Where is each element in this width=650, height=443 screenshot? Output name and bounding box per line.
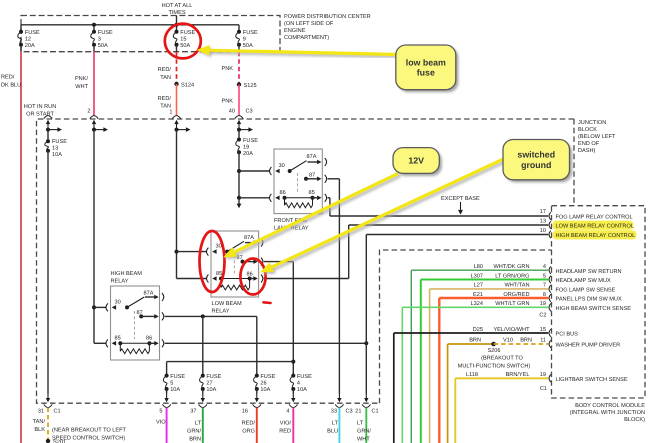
fuse F5 (10A) [163,374,185,393]
BCM terminal 19: HIGH BEAM SWITCH SENSE [549,304,551,312]
fuse F12 (20A) [18,30,40,49]
terminal 21 C1 [365,393,367,399]
relay: LOW BEAM RELAY (box) [211,231,259,297]
wire BRN (washer pump, solid to S206) [448,343,494,345]
terminal 31 C1 [47,393,49,399]
junction block enclosure (dashed) [37,119,575,403]
svg-text:switched: switched [517,150,555,160]
svg-text:RED: RED [279,429,291,435]
svg-text:RELAY: RELAY [212,309,230,315]
wire C from terminal 1 down [175,128,179,132]
svg-text:HIGH BEAM RELAY CONTROL: HIGH BEAM RELAY CONTROL [556,233,636,239]
svg-text:BRN/YEL: BRN/YEL [506,371,530,378]
BCM terminal 19 C1: LIGHTBAR SWITCH SENSE [549,375,551,383]
svg-text:86: 86 [146,336,152,342]
svg-text:86: 86 [280,190,286,196]
labels for L118 [466,371,546,378]
svg-text:PNK/: PNK/ [75,75,89,82]
svg-text:FOG LAMP RELAY CONTROL: FOG LAMP RELAY CONTROL [556,214,633,220]
svg-text:S124: S124 [181,83,194,89]
svg-text:87A: 87A [144,291,154,297]
svg-text:SPEED CONTROL SWITCH): SPEED CONTROL SWITCH) [52,435,125,442]
svg-text:(BREAKOUT TO: (BREAKOUT TO [481,355,523,362]
svg-text:POWER DISTRIBUTION CENTER: POWER DISTRIBUTION CENTER [284,14,371,20]
junction: wire C to low-beam pin 30 [175,250,179,254]
svg-text:5: 5 [543,273,546,279]
wire PNK (fuse 9 to splice S125, dashed) [238,52,240,85]
svg-text:4: 4 [543,264,546,270]
svg-text:C3: C3 [246,109,253,115]
low beam switch arm 30-87A [227,241,244,251]
bus wire inside PDC [21,24,239,26]
svg-text:ENGINE: ENGINE [284,28,306,34]
svg-text:LOW BEAM: LOW BEAM [212,301,242,307]
svg-text:C3: C3 [346,409,353,415]
callout: low beam fuse [396,45,459,92]
fuse F15 (50A) [173,30,195,49]
svg-text:5: 5 [170,381,173,387]
svg-text:FUSE: FUSE [206,374,221,380]
labels for L307 [471,272,546,279]
wire B from terminal 2 down [92,128,96,132]
junction: wire D to fog relay pin 30 [237,169,241,173]
svg-text:RED/: RED/ [158,66,172,73]
svg-text:BLOCK): BLOCK) [624,416,645,423]
junction: wire D to fog relay pin 86 [237,196,241,200]
svg-text:BLK: BLK [34,427,45,433]
svg-text:LT: LT [332,421,339,427]
fuse F9 (50A) [236,30,258,49]
low beam relay label [212,301,242,315]
fog relay label [274,218,309,232]
BCM terminal 11: WASHER PUMP DRIVER [549,340,551,348]
high beam coil [120,342,149,344]
label RED/ORG [242,420,256,435]
svg-text:17: 17 [540,209,546,215]
relay: FRONT FOG LAMP RELAY (box) [274,149,322,214]
wire: fog 87 to terminal 33 (down at x=339.4) [328,178,340,180]
wire E21 ORG/RED to BCM (PANEL LPS DIM SW MUX) [439,297,548,299]
svg-text:13: 13 [52,146,58,152]
svg-text:10A: 10A [52,152,62,158]
labels for L324 [471,300,546,307]
label LT GRN/WHT [357,421,371,443]
svg-text:BLU: BLU [327,429,338,435]
wire: branch to fuse 5 [167,361,294,363]
svg-text:PNK: PNK [221,66,233,72]
svg-text:FUSE: FUSE [260,374,275,380]
wire: fuse 5 to bottom terminal [166,389,168,394]
svg-text:VIO/: VIO/ [280,420,292,427]
svg-text:50A: 50A [243,43,253,49]
note: BREAKOUT TO MULTI-FUNCTION SWITCH [458,355,531,370]
svg-text:L118: L118 [466,372,478,378]
svg-text:(NEAR BREAKOUT TO LEFT: (NEAR BREAKOUT TO LEFT [52,427,127,434]
wire: low beam 86 to BCM low beam relay control [264,278,349,280]
note: NEAR BREAKOUT TO LEFT SPEED CONTROL SWITCH [52,427,127,442]
wire D25 YEL/VIO/WHT (PCI BUS) [394,332,548,334]
fog relay coil [285,197,313,199]
svg-text:FUSE: FUSE [243,138,258,144]
junction + feed arrow on wire A [46,128,50,132]
bus junction at fuse 3 [92,23,96,27]
svg-text:19: 19 [540,301,546,307]
svg-text:WHT/LT GRN: WHT/LT GRN [495,300,529,307]
svg-text:TAN: TAN [160,75,171,81]
svg-text:16: 16 [242,409,248,415]
wire RED/TAN (fuse 15 to splice S124, dashed) [176,52,178,84]
svg-text:HIGH BEAM SWITCH SENSE: HIGH BEAM SWITCH SENSE [556,306,632,312]
svg-text:L27: L27 [474,283,483,289]
label: JUNCTION BLOCK (BELOW LEFT END OF DASH) [578,120,616,154]
wire: branch down to fuse 27 [202,316,204,375]
wire L27 WHT/TAN to BCM (FOG LAMP SW SENSE) [430,288,549,290]
relay: HIGH BEAM RELAY (box) [111,286,160,360]
BCM terminal 8: PANEL LPS DIM SW MUX [549,294,551,302]
svg-text:END OF: END OF [578,141,600,147]
terminal 16 [256,393,258,399]
wire: C bottom to low beam relay pin 85 [177,278,207,280]
svg-text:BRN: BRN [520,338,532,344]
label TAN/BLK [33,418,46,433]
svg-text:WASHER PUMP DRIVER: WASHER PUMP DRIVER [556,343,621,349]
svg-text:LT: LT [357,421,364,427]
svg-text:VIO: VIO [156,420,166,426]
splice S125 [237,82,241,86]
svg-text:40: 40 [229,109,235,115]
fog relay switch arm 30-87A [290,161,307,171]
callout: switched ground [503,140,572,183]
body control module enclosure (dashed) [552,206,646,398]
red tick mark [264,301,271,304]
wire L118 BRN/YEL (lightbar switch sense) [455,377,548,379]
svg-text:DASH): DASH) [578,147,596,154]
svg-text:MULTI-FUNCTION SWITCH): MULTI-FUNCTION SWITCH) [458,363,531,370]
high beam relay label [111,271,143,285]
svg-text:27: 27 [206,381,212,387]
svg-text:4: 4 [286,409,289,415]
svg-text:FUSE: FUSE [297,374,312,380]
red ellipse annotation around low beam pins 30/85 [200,231,225,292]
wire LT GRN/BRN [202,408,204,443]
junction: low beam feed split [291,360,295,364]
wire: B bottom to high beam relay pin 85 [94,342,106,344]
svg-text:LIGHTBAR SWITCH SENSE: LIGHTBAR SWITCH SENSE [556,377,628,383]
callout: 12V [393,148,442,176]
svg-text:11: 11 [540,338,546,344]
wire: junction down to terminal 21 [365,343,367,393]
svg-text:C1: C1 [540,386,547,392]
wire: fuse 15 lower stub [176,45,178,52]
wire L307 LT GRN/ORG to BCM (HEADLAMP SW MUX) [421,279,548,281]
svg-text:L80: L80 [474,264,483,270]
wire: BCM high beam relay control down to junction [365,235,367,344]
label: POWER DISTRIBUTION CENTER [284,14,371,41]
svg-text:85: 85 [216,271,222,277]
labels for L80 [474,263,546,270]
svg-text:RED/: RED/ [1,74,15,81]
svg-text:FOG LAMP SW SENSE: FOG LAMP SW SENSE [556,288,616,294]
high beam pin 86 exit [149,342,155,344]
svg-text:BODY CONTROL MODULE: BODY CONTROL MODULE [575,403,645,409]
wire VIO [166,408,168,443]
wire: fuse 27 to bottom terminal [202,389,204,394]
terminal 1 (C3) [172,116,180,119]
splice S124 [174,82,178,86]
wire: high beam 86 to BCM / terminal 21 [165,342,367,344]
svg-text:10A: 10A [206,387,216,393]
svg-text:D25: D25 [473,327,483,333]
svg-text:ORG/RED: ORG/RED [503,291,529,298]
red circle annotation around fuse 15 [165,24,201,59]
svg-text:15: 15 [540,327,546,333]
svg-text:L324: L324 [471,301,483,307]
wire: fuse 12 lower stub [20,45,22,52]
svg-text:LOW BEAM RELAY CONTROL: LOW BEAM RELAY CONTROL [556,224,634,230]
feed stub from HOT AT ALL TIMES [176,16,178,25]
svg-text:HIGH BEAM: HIGH BEAM [111,271,143,277]
fuse F19 (20A) [236,138,258,157]
svg-text:RED/: RED/ [158,95,172,102]
wire: fuse 9 lower stub [238,45,240,52]
terminal 40 C3 [235,116,243,119]
svg-text:FUSE: FUSE [25,30,40,36]
annotation arrow: switched ground callout to low beam pin 86 [260,159,506,274]
svg-text:PNK: PNK [221,99,233,105]
highlight: LOW BEAM RELAY CONTROL [553,221,634,230]
svg-text:33: 33 [331,409,337,415]
svg-text:WHT/DK GRN: WHT/DK GRN [493,263,529,270]
svg-text:FUSE: FUSE [243,30,258,36]
svg-text:HEADLAMP SW RETURN: HEADLAMP SW RETURN [556,269,622,275]
wire: fuse 3 lower stub [93,45,95,52]
label PNK/WHT [75,75,89,90]
fuse F27 (10A) [200,374,222,393]
svg-text:BRN: BRN [469,338,481,344]
red ellipse annotation around low beam pin 86 [240,259,265,295]
svg-text:87: 87 [309,172,315,178]
svg-text:BLOCK: BLOCK [578,127,597,133]
highlight: HIGH BEAM RELAY CONTROL [553,230,637,239]
svg-text:TAN/: TAN/ [33,418,46,425]
labels for L27 [474,282,546,289]
svg-text:30: 30 [279,163,285,169]
low beam coil [221,278,250,280]
junction: branch to fuse 27 [201,314,205,318]
svg-text:C2: C2 [539,313,546,319]
fog relay pin 85 exit [313,197,318,199]
svg-text:50A: 50A [98,43,108,49]
svg-text:30: 30 [115,300,121,306]
svg-text:RED/: RED/ [242,420,256,427]
svg-text:13: 13 [540,218,546,224]
svg-text:19: 19 [540,372,546,378]
svg-text:YEL/VIO/WHT: YEL/VIO/WHT [493,326,530,333]
label LT GRN/BRN [187,421,202,443]
svg-text:10A: 10A [260,387,270,393]
labels for D25 [473,326,546,333]
svg-text:S125: S125 [244,83,257,89]
wire LT GRN/WHT [365,408,367,443]
svg-text:10A: 10A [297,387,307,393]
wire D from terminal 40 down [237,128,241,132]
svg-text:EXCEPT BASE: EXCEPT BASE [441,196,480,202]
wire: fuse 13 to terminal 31 [47,151,49,394]
svg-text:PCI BUS: PCI BUS [556,332,579,338]
svg-text:PANEL LPS DIM SW MUX: PANEL LPS DIM SW MUX [556,297,622,303]
svg-text:BRN: BRN [189,437,201,443]
wire RED/ORG [256,408,258,443]
svg-text:21: 21 [355,409,361,415]
label RED/TAN lower [158,95,172,110]
svg-text:26: 26 [260,381,266,387]
BCM terminal 15: PCI BUS [549,329,551,337]
svg-text:19: 19 [243,144,249,150]
svg-text:WHT/TAN: WHT/TAN [504,282,529,289]
wire L324 WHT/LT GRN to BCM (HIGH BEAM SWITCH SENSE) [402,306,548,308]
wire RED/DK BLU (fuse 12 output, runs to page bottom) [20,52,22,443]
label VIO/RED [279,420,291,435]
svg-text:10A: 10A [170,387,180,393]
svg-text:31: 31 [38,409,44,415]
wire: fog 85 to BCM fog lamp relay control [328,197,330,199]
svg-text:LT: LT [195,421,202,427]
label: BODY CONTROL MODULE [570,403,646,423]
labels for E21 [473,291,546,298]
wire L80 WHT/DK GRN to BCM (HEADLAMP SW RETURN) [411,269,548,271]
svg-text:(INTEGRAL WITH JUNCTION: (INTEGRAL WITH JUNCTION [570,409,645,416]
BCM terminal 10: HIGH BEAM RELAY CONTROL [549,231,551,239]
fuse F26 (10A) [254,374,276,393]
net label: HOT AT ALL TIMES [162,3,193,16]
svg-text:87A: 87A [244,235,254,241]
labels for washer pump wire [469,338,546,344]
svg-text:ground: ground [521,160,551,170]
svg-text:20A: 20A [25,43,35,49]
BCM terminal 17: FOG LAMP RELAY CONTROL [549,212,551,220]
junction: wire B to high-beam pin 30 [92,305,96,309]
svg-text:85: 85 [309,190,315,196]
svg-text:S206: S206 [487,348,500,354]
low beam pin 86 exit [250,278,254,280]
label LT BLU [327,421,338,435]
splice S201 [46,439,50,443]
bus junction at fuse 15 [175,23,179,27]
terminal 2 (C3) [90,116,98,119]
junction at x=366.3 [364,341,368,345]
svg-text:9: 9 [243,37,246,43]
wire: C junction to low beam relay pin 30 [177,251,207,253]
svg-text:FUSE: FUSE [170,374,185,380]
svg-text:WHT: WHT [357,437,370,443]
svg-text:(BELOW LEFT: (BELOW LEFT [578,133,616,140]
svg-text:50A: 50A [180,43,190,49]
splice S206 [491,342,496,347]
svg-text:4: 4 [297,381,300,387]
svg-text:5: 5 [159,409,162,415]
svg-text:ORG: ORG [242,429,255,435]
wire V10 BRN (dashed to BCM) [494,343,549,345]
svg-text:20A: 20A [243,151,253,157]
svg-text:2: 2 [87,109,90,115]
wire PNK/WHT (fuse 3 to junction block terminal 2) [93,52,95,116]
svg-text:C1: C1 [372,409,379,415]
svg-text:8: 8 [543,292,546,298]
svg-text:10: 10 [540,228,546,234]
svg-text:COMPARTMENT): COMPARTMENT) [284,34,329,41]
svg-text:12V: 12V [408,156,424,166]
wire RED/TAN (S124 to terminal 1) [176,84,178,116]
wire: fuse 26 to bottom terminal [256,389,258,394]
svg-text:1: 1 [169,110,172,116]
wire A from HOT IN RUN bus into JB [44,116,52,119]
annotation arrow: 12V callout to low beam pin 30 [223,174,400,260]
svg-text:FUSE: FUSE [98,30,113,36]
terminal 37 [202,393,204,399]
svg-text:LT GRN/ORG: LT GRN/ORG [495,272,529,279]
annotation arrow: low beam fuse callout to fuse 15 [197,45,401,57]
svg-text:30: 30 [216,244,222,250]
label RED/TAN [158,66,172,81]
svg-text:7: 7 [543,283,546,289]
svg-text:JUNCTION: JUNCTION [578,120,606,126]
wire VIO/RED [292,408,294,443]
svg-text:3: 3 [98,37,101,43]
high beam switch arm 30-87A [127,297,144,307]
BCM terminal 5: HEADLAMP SW MUX [549,276,551,284]
wire: B junction to high beam relay pin 30 [94,306,106,308]
wire D continuation arrow (to other circuits) [237,204,242,209]
svg-text:WHT: WHT [75,84,88,90]
wire: fuse 4 to bottom terminal [292,389,294,394]
svg-text:C1: C1 [54,409,61,415]
wire: low beam 87 feeds fuses 5 and 4 [264,261,294,263]
svg-text:E21: E21 [473,292,483,298]
svg-text:HOT AT ALL: HOT AT ALL [162,3,193,9]
wire TAN/BLK (below terminal 31, dashed) [47,408,49,441]
svg-text:low beam: low beam [406,57,446,67]
fuse F3 (50A) [91,30,113,49]
svg-text:fuse: fuse [417,68,435,78]
svg-text:HOT IN RUN: HOT IN RUN [24,104,57,110]
BCM terminal 13: LOW BEAM RELAY CONTROL [549,221,551,229]
svg-text:87A: 87A [307,154,317,160]
fuse F13 (10A) [45,139,67,158]
BCM terminal 4: HEADLAMP SW RETURN [549,266,551,274]
svg-text:HEADLAMP SW MUX: HEADLAMP SW MUX [556,278,611,284]
terminal 4 [292,393,294,399]
svg-text:V10: V10 [503,338,513,344]
svg-text:GRN/: GRN/ [187,428,201,435]
power distribution center enclosure (dashed box) [21,16,280,52]
svg-text:GRN/: GRN/ [357,428,371,435]
svg-text:TIMES: TIMES [168,10,185,16]
wire: D junction to fog relay pin 30 [239,170,270,172]
svg-text:FUSE: FUSE [52,139,67,145]
svg-text:12: 12 [25,37,31,43]
svg-text:L307: L307 [471,273,483,279]
wire: fuse 19 down to fog relay [238,152,240,205]
terminal 33 C3 [338,393,340,399]
svg-text:DK BLU: DK BLU [1,83,21,89]
label RED/DK BLU [1,74,21,89]
svg-text:15: 15 [180,37,186,43]
svg-text:RELAY: RELAY [111,279,129,285]
wire PNK (S125 to terminal 40) [238,85,240,117]
wire: high beam 87 feeds fuses 27 and 26 [165,315,257,317]
svg-text:85: 85 [115,336,121,342]
fuse F4 (10A) [290,374,312,393]
